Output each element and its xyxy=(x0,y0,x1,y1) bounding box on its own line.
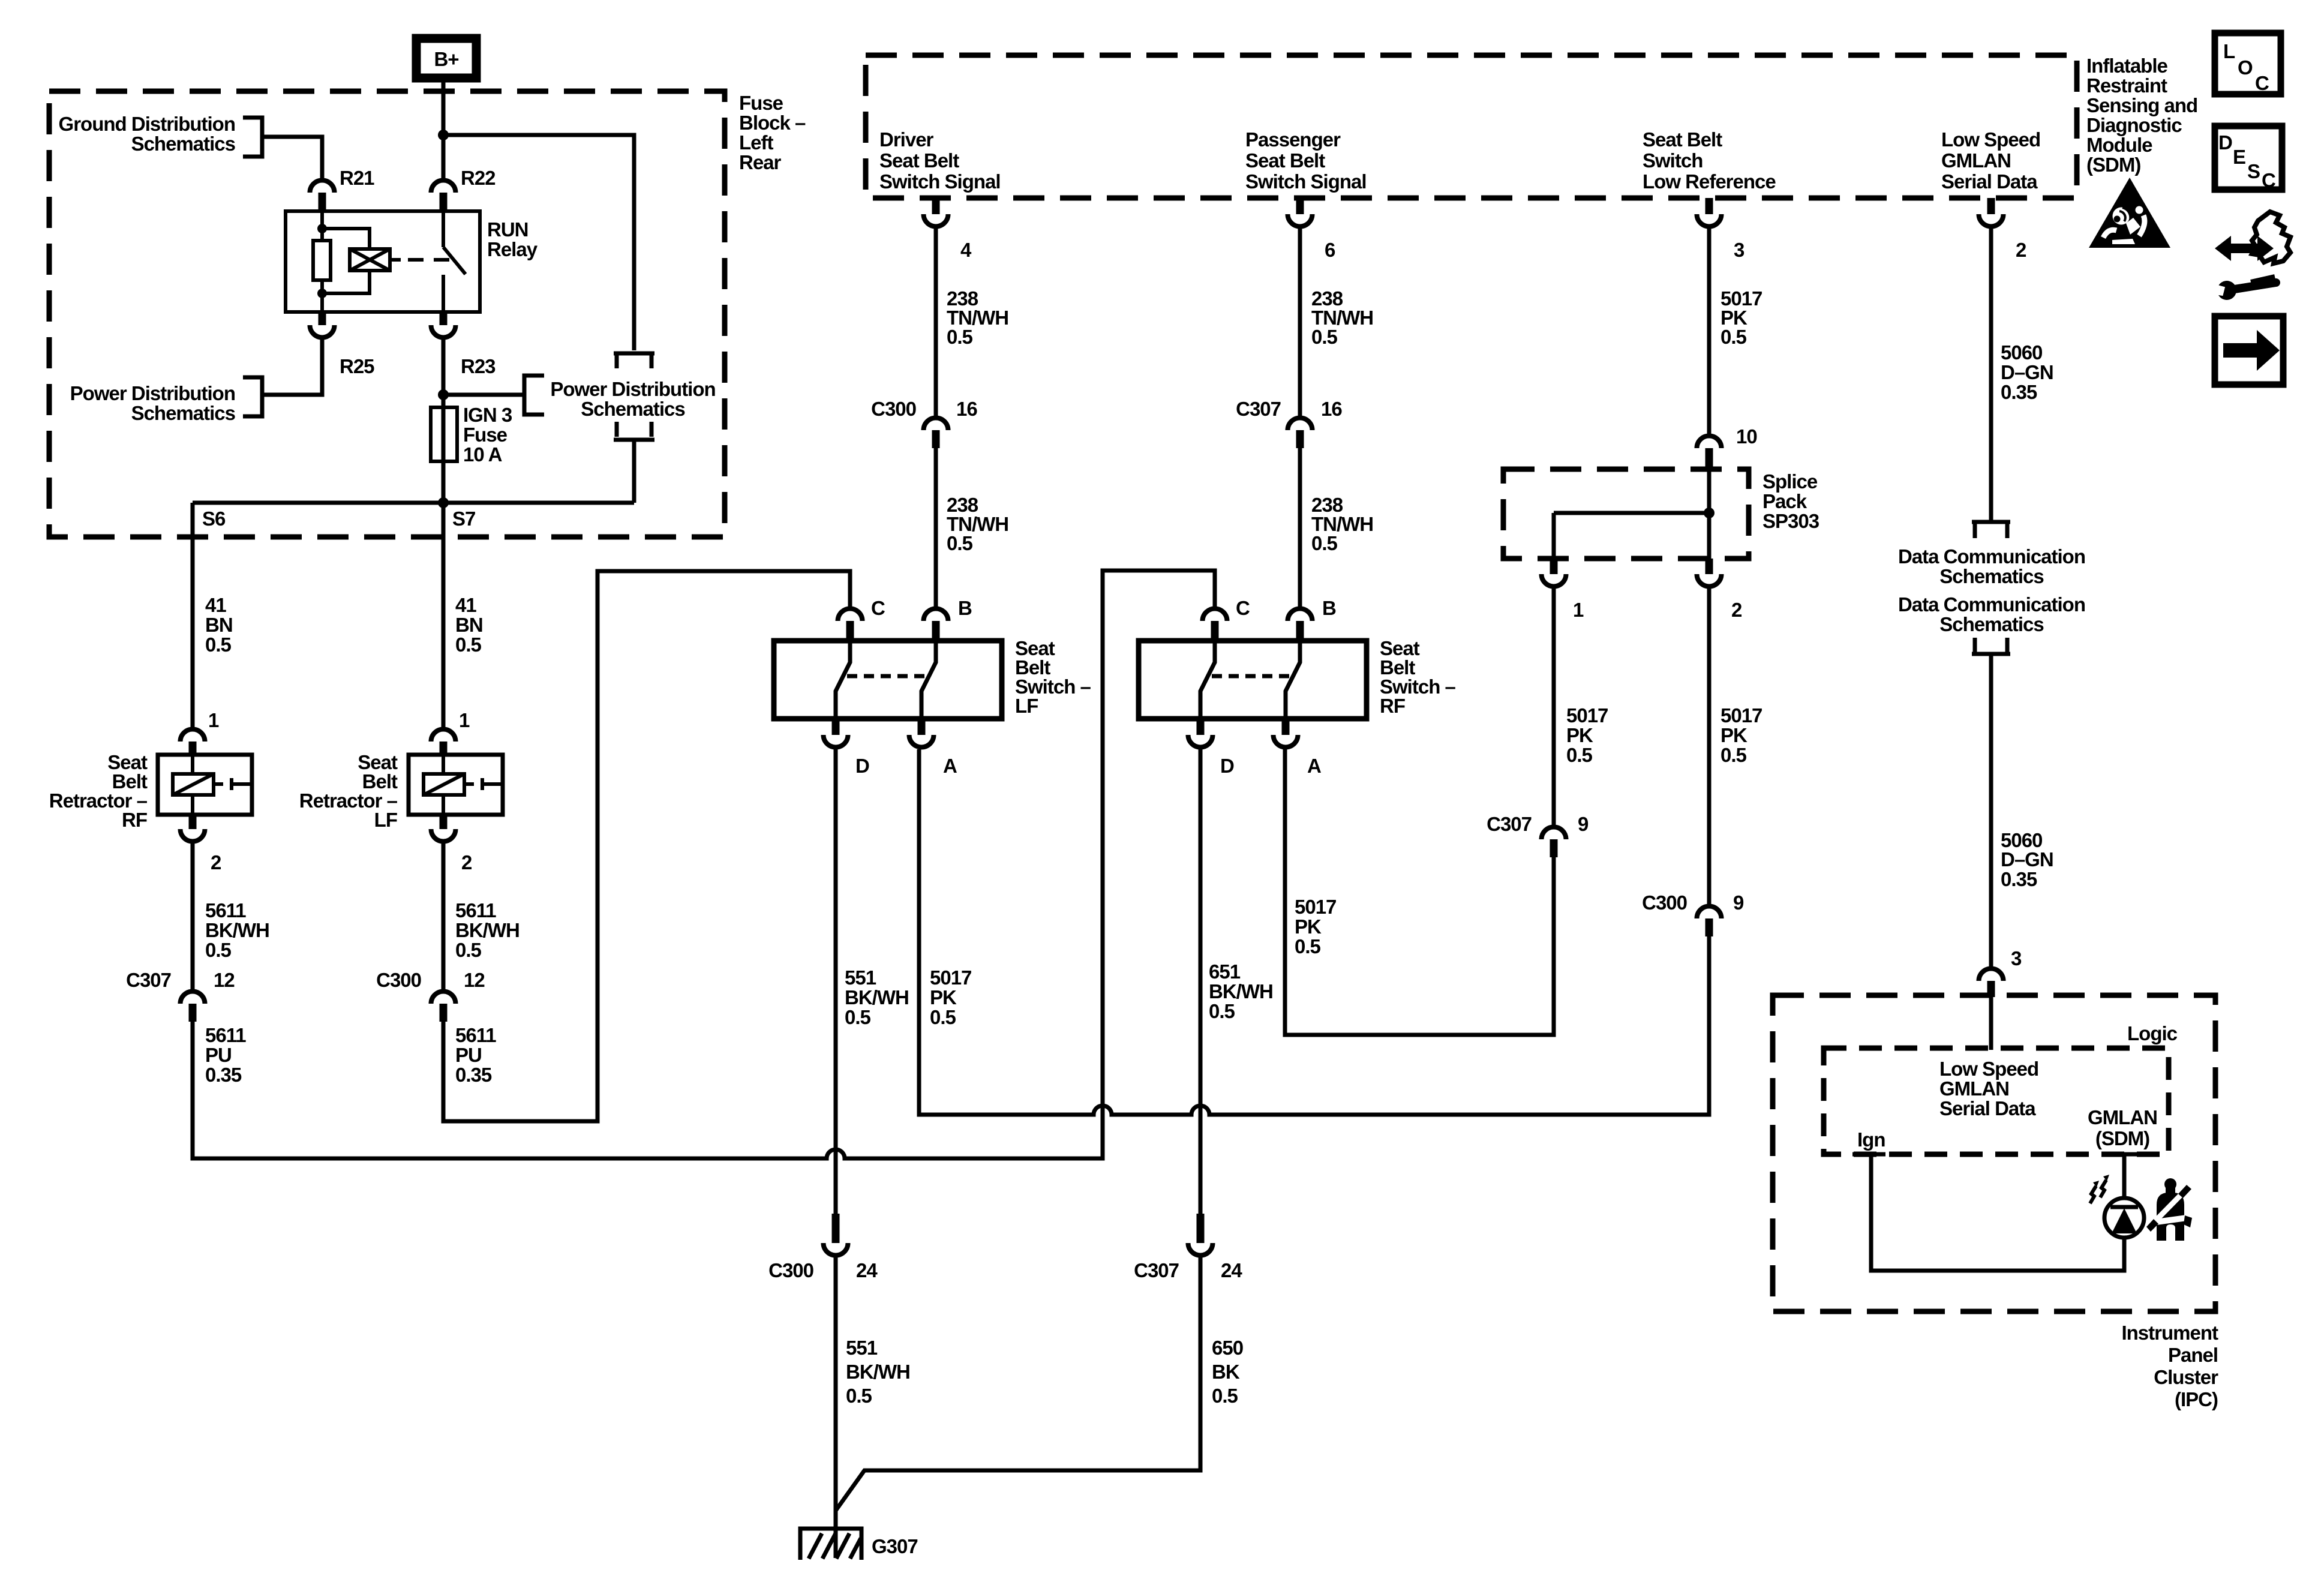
connector splice pack pin 10 xyxy=(1697,436,1722,448)
wire splice 2 down xyxy=(1707,589,1712,904)
svg-text:0.5: 0.5 xyxy=(455,634,482,656)
LED light arrows xyxy=(2090,1186,2096,1203)
svg-text:0.5: 0.5 xyxy=(1566,744,1593,766)
svg-text:Ign: Ign xyxy=(1857,1128,1885,1151)
battery feed B+ xyxy=(416,38,476,78)
svg-text:5017: 5017 xyxy=(1566,704,1608,727)
svg-text:PK: PK xyxy=(1566,724,1593,746)
svg-text:5060: 5060 xyxy=(2001,341,2042,364)
wire branch to right loop xyxy=(443,135,634,350)
svg-text:RF: RF xyxy=(1380,695,1405,717)
svg-text:C307: C307 xyxy=(1134,1259,1179,1281)
svg-text:Data Communication: Data Communication xyxy=(1898,593,2085,616)
svg-text:5017: 5017 xyxy=(1295,896,1336,918)
LOC icon box xyxy=(2215,33,2281,94)
svg-text:S6: S6 xyxy=(202,508,226,530)
svg-text:BN: BN xyxy=(455,614,483,636)
svg-text:41: 41 xyxy=(205,594,226,616)
diagnostic arrows-wrench icon xyxy=(2210,212,2290,302)
svg-text:C: C xyxy=(871,597,885,619)
svg-text:0.5: 0.5 xyxy=(846,1385,872,1407)
svg-text:Logic: Logic xyxy=(2127,1022,2178,1044)
seat belt switch RF box xyxy=(1139,641,1367,719)
svg-text:PU: PU xyxy=(455,1044,482,1066)
svg-text:0.5: 0.5 xyxy=(205,634,232,656)
connector C300 pin 16 xyxy=(924,418,948,430)
wire SDM pin 3 down xyxy=(1707,229,1712,434)
SDM pin 4 connector xyxy=(932,198,940,214)
SDM pin 2 connector xyxy=(1987,198,1995,214)
svg-text:L: L xyxy=(2223,40,2235,62)
svg-text:650: 650 xyxy=(1212,1337,1243,1359)
svg-text:2: 2 xyxy=(2016,239,2026,261)
connector C307 pin 12 xyxy=(181,992,205,1004)
retractor RF pin 2 connector xyxy=(189,815,197,829)
svg-text:6: 6 xyxy=(1325,239,1335,261)
wire LF retractor to riser to LF switch C xyxy=(443,571,850,1121)
off-page reference Power Distribution Schematics (right of IGN3) xyxy=(524,376,544,415)
wire 551 down to ground xyxy=(834,1257,838,1558)
wire right loop down to bus xyxy=(632,440,636,503)
svg-text:Diagnostic: Diagnostic xyxy=(2086,114,2182,136)
switch LF dashed link xyxy=(847,674,929,679)
seat belt retractor LF box xyxy=(409,755,503,815)
svg-text:C300: C300 xyxy=(376,969,421,991)
svg-text:Switch Signal: Switch Signal xyxy=(879,170,1001,193)
svg-text:Serial Data: Serial Data xyxy=(1941,170,2038,193)
switch RF dashed link xyxy=(1212,674,1293,679)
node splice junction xyxy=(1704,508,1715,518)
relay switch contact xyxy=(442,211,445,247)
svg-text:A: A xyxy=(943,755,957,777)
retractor RF solenoid xyxy=(173,774,214,795)
svg-text:SP303: SP303 xyxy=(1762,510,1819,532)
svg-text:16: 16 xyxy=(1321,398,1342,420)
splice pin 1 connector xyxy=(1550,559,1558,574)
svg-text:0.5: 0.5 xyxy=(930,1006,956,1028)
wire R25 to power dist bracket xyxy=(262,340,322,395)
svg-text:C: C xyxy=(2255,72,2269,94)
svg-text:B: B xyxy=(958,597,972,619)
svg-text:BK/WH: BK/WH xyxy=(846,1361,910,1383)
svg-text:0.35: 0.35 xyxy=(455,1064,492,1086)
seat belt switch RF connectors C and B xyxy=(1203,609,1227,621)
svg-text:D–GN: D–GN xyxy=(2001,848,2053,870)
switch RF blade B-A xyxy=(1286,641,1300,719)
wire LF switch D down (551) xyxy=(834,749,838,1214)
wire RF retractor to riser (hop over LF wire) xyxy=(193,571,1215,1158)
fuse IGN 3 10A xyxy=(431,407,457,461)
svg-text:A: A xyxy=(1307,755,1321,777)
wire C307-9 down to RF switch A xyxy=(1285,749,1554,1035)
connector R22 xyxy=(431,181,456,193)
relay coil (box with X) xyxy=(350,249,390,271)
svg-text:Schematics: Schematics xyxy=(1939,565,2043,587)
LED indicator (seat belt lamp) xyxy=(2104,1198,2144,1238)
seat belt retractor RF box xyxy=(158,755,252,815)
svg-text:C307: C307 xyxy=(126,969,171,991)
svg-text:0.5: 0.5 xyxy=(1311,532,1338,554)
ground G307 xyxy=(800,1529,861,1560)
svg-text:C300: C300 xyxy=(871,398,916,420)
svg-text:0.5: 0.5 xyxy=(455,939,482,961)
node B+ branch junction xyxy=(438,130,449,140)
wire SDM pin 6 down xyxy=(1298,229,1302,416)
svg-text:0.35: 0.35 xyxy=(2001,868,2037,890)
svg-text:Seat Belt: Seat Belt xyxy=(879,149,959,172)
retractor LF pin 1 connector xyxy=(431,730,456,742)
wire R23 to IGN3 fuse xyxy=(442,340,446,503)
svg-text:0.5: 0.5 xyxy=(1295,935,1321,957)
wire SDM pin 4 down xyxy=(934,229,938,416)
svg-text:Schematics: Schematics xyxy=(1939,613,2043,635)
svg-text:Module: Module xyxy=(2086,134,2152,156)
off-page reference Data Communication Schematics (double) xyxy=(1972,520,2010,524)
svg-text:5611: 5611 xyxy=(205,1024,246,1046)
wire IPC pin 3 into logic box xyxy=(1989,997,1993,1050)
connector C307 pin 9 xyxy=(1542,827,1566,839)
svg-text:0.5: 0.5 xyxy=(1721,744,1747,766)
splice pin 2 connector xyxy=(1706,559,1713,574)
svg-text:651: 651 xyxy=(1209,960,1241,983)
DESC icon box xyxy=(2215,126,2282,190)
resistor (relay) xyxy=(313,241,331,280)
connector R25 xyxy=(319,312,326,325)
svg-text:0.5: 0.5 xyxy=(1311,326,1338,348)
svg-text:Low Speed: Low Speed xyxy=(1941,128,2040,151)
seat belt switch LF connectors C and B xyxy=(838,609,863,621)
relay coil leg wire xyxy=(320,211,324,241)
svg-text:Pack: Pack xyxy=(1762,490,1807,512)
svg-text:0.35: 0.35 xyxy=(2001,381,2037,403)
wire Ign to LED xyxy=(1871,1154,2124,1271)
connector C307 pin 24 xyxy=(1197,1214,1205,1243)
svg-text:0.5: 0.5 xyxy=(947,326,973,348)
svg-text:R25: R25 xyxy=(340,355,374,377)
svg-text:1: 1 xyxy=(459,709,470,731)
seat belt wearer icon xyxy=(2146,1178,2192,1241)
svg-text:LF: LF xyxy=(1015,695,1038,717)
svg-text:D: D xyxy=(2218,131,2232,154)
svg-text:0.5: 0.5 xyxy=(947,532,973,554)
svg-text:Power Distribution: Power Distribution xyxy=(70,382,235,404)
connector C300 pin 9 xyxy=(1697,906,1722,918)
switch RF connectors D and A xyxy=(1197,719,1205,735)
svg-text:551: 551 xyxy=(846,1337,878,1359)
svg-text:GMLAN: GMLAN xyxy=(2088,1106,2157,1128)
svg-text:Fuse: Fuse xyxy=(739,92,783,114)
svg-text:2: 2 xyxy=(461,851,472,873)
svg-text:0.5: 0.5 xyxy=(845,1006,871,1028)
svg-text:Fuse: Fuse xyxy=(463,424,508,446)
SDM dashed box xyxy=(866,55,2077,198)
wire retractor RF down xyxy=(191,843,195,989)
svg-text:C: C xyxy=(2262,169,2275,191)
svg-text:IGN 3: IGN 3 xyxy=(463,404,512,426)
wire B+ to R22 xyxy=(442,82,446,178)
svg-text:0.35: 0.35 xyxy=(205,1064,242,1086)
svg-text:R23: R23 xyxy=(461,355,496,377)
forward reference arrow icon box xyxy=(2215,316,2283,385)
svg-text:Schematics: Schematics xyxy=(131,402,235,424)
svg-text:Switch Signal: Switch Signal xyxy=(1245,170,1367,193)
wire resistor bypass to coil xyxy=(322,229,370,249)
svg-text:5017: 5017 xyxy=(1721,704,1762,727)
node coil bottom xyxy=(317,289,327,298)
svg-text:(IPC): (IPC) xyxy=(2175,1388,2218,1410)
connector R23 xyxy=(440,312,448,325)
svg-text:Relay: Relay xyxy=(487,238,538,260)
svg-text:BK/WH: BK/WH xyxy=(455,919,520,941)
svg-text:S7: S7 xyxy=(452,508,475,530)
coil actuator lead xyxy=(390,258,401,262)
svg-text:R22: R22 xyxy=(461,167,496,189)
svg-text:24: 24 xyxy=(1221,1259,1242,1281)
svg-text:Power Distribution: Power Distribution xyxy=(550,378,715,400)
svg-text:0.5: 0.5 xyxy=(1209,1000,1235,1022)
wire C307-16 to RF switch B xyxy=(1298,448,1302,607)
svg-text:C: C xyxy=(1236,597,1250,619)
svg-text:LF: LF xyxy=(374,809,397,831)
svg-text:3: 3 xyxy=(1734,239,1744,261)
RUN relay box xyxy=(286,211,480,312)
svg-text:Left: Left xyxy=(739,131,774,154)
svg-text:PK: PK xyxy=(1295,915,1322,938)
svg-text:D: D xyxy=(855,755,869,777)
relay actuator dashed link xyxy=(408,258,454,262)
svg-text:BK/WH: BK/WH xyxy=(845,986,909,1008)
svg-text:GMLAN: GMLAN xyxy=(1941,149,2011,172)
svg-text:3: 3 xyxy=(2011,947,2022,969)
svg-text:S: S xyxy=(2247,160,2260,182)
wire junction to right bracket xyxy=(443,393,524,397)
svg-text:Low Reference: Low Reference xyxy=(1643,170,1776,193)
svg-text:Ground Distribution: Ground Distribution xyxy=(59,113,235,135)
retractor LF pin 2 connector xyxy=(440,815,448,829)
switch RF blade C-D xyxy=(1200,641,1215,719)
splice pack internal wires xyxy=(1707,469,1712,559)
svg-text:4: 4 xyxy=(960,239,972,261)
svg-text:C307: C307 xyxy=(1487,813,1532,835)
wire LF switch A to 1858 bus xyxy=(917,749,921,1115)
wire S6 down xyxy=(191,503,195,727)
wire data comm down to IPC pin 3 xyxy=(1989,654,1993,966)
svg-text:BN: BN xyxy=(205,614,233,636)
instrument panel cluster dashed box xyxy=(1773,995,2215,1311)
svg-text:5611: 5611 xyxy=(455,1024,496,1046)
svg-text:12: 12 xyxy=(464,969,485,991)
wire splice 1 down xyxy=(1552,589,1556,825)
svg-text:(SDM): (SDM) xyxy=(2095,1127,2149,1149)
bus S6/S7 horizontal xyxy=(193,501,634,505)
wire retractor LF down xyxy=(442,843,446,989)
node S7 xyxy=(438,497,449,508)
svg-text:G307: G307 xyxy=(872,1535,918,1557)
SDM pin 6 connector xyxy=(1296,198,1304,214)
svg-text:Low Speed: Low Speed xyxy=(1939,1058,2038,1080)
wire S7 down xyxy=(442,503,446,727)
svg-text:BK/WH: BK/WH xyxy=(1209,980,1273,1002)
svg-text:Splice: Splice xyxy=(1762,470,1818,493)
svg-text:Serial Data: Serial Data xyxy=(1939,1097,2036,1119)
svg-text:9: 9 xyxy=(1733,891,1744,914)
wire C300-9 down to LF switch A (hops over risers) xyxy=(919,749,1709,1115)
svg-text:Instrument: Instrument xyxy=(2121,1322,2218,1344)
svg-text:2: 2 xyxy=(1731,599,1742,621)
connector C300 pin 12 xyxy=(431,992,456,1004)
svg-text:Cluster: Cluster xyxy=(2154,1366,2218,1388)
svg-text:16: 16 xyxy=(956,398,977,420)
svg-text:Rear: Rear xyxy=(739,151,782,173)
svg-text:GMLAN: GMLAN xyxy=(1939,1077,2009,1100)
svg-text:(SDM): (SDM) xyxy=(2086,154,2140,176)
switch LF connectors D and A xyxy=(832,719,840,735)
svg-text:10: 10 xyxy=(1736,425,1757,448)
svg-text:Driver: Driver xyxy=(879,128,934,151)
svg-text:41: 41 xyxy=(455,594,476,616)
svg-text:551: 551 xyxy=(845,966,876,989)
svg-text:C307: C307 xyxy=(1236,398,1281,420)
seat belt switch LF box xyxy=(774,641,1002,719)
svg-text:5611: 5611 xyxy=(455,899,496,921)
wire GMLAN pin to LED xyxy=(2122,1154,2127,1198)
svg-text:1: 1 xyxy=(1573,599,1584,621)
svg-text:O: O xyxy=(2238,56,2253,79)
switch LF blade C-D xyxy=(836,641,850,719)
node coil top xyxy=(317,224,327,233)
svg-text:RF: RF xyxy=(122,809,147,831)
svg-text:Schematics: Schematics xyxy=(581,398,684,420)
svg-text:PK: PK xyxy=(930,986,957,1008)
svg-text:Sensing and: Sensing and xyxy=(2086,94,2197,116)
svg-text:12: 12 xyxy=(214,969,235,991)
svg-text:BK/WH: BK/WH xyxy=(205,919,269,941)
connector R21 xyxy=(310,181,335,193)
svg-text:D–GN: D–GN xyxy=(2001,361,2053,383)
wire bracket to R21 xyxy=(262,137,322,178)
node IGN3 junction xyxy=(438,389,449,400)
svg-text:PU: PU xyxy=(205,1044,232,1066)
svg-text:Schematics: Schematics xyxy=(131,133,235,155)
splice pack SP303 dashed box xyxy=(1503,469,1749,559)
connector IPC pin 3 xyxy=(1979,969,2004,981)
svg-text:5017: 5017 xyxy=(930,966,971,989)
IPC logic inner dashed box xyxy=(1824,1048,2169,1154)
svg-text:Seat Belt: Seat Belt xyxy=(1643,128,1722,151)
svg-text:BK: BK xyxy=(1212,1361,1240,1383)
svg-text:0.5: 0.5 xyxy=(205,939,232,961)
svg-text:B: B xyxy=(1322,597,1336,619)
svg-text:5611: 5611 xyxy=(205,899,246,921)
svg-text:Restraint: Restraint xyxy=(2086,74,2167,97)
svg-text:Passenger: Passenger xyxy=(1245,128,1341,151)
svg-text:B+: B+ xyxy=(434,48,458,70)
SDM pin 3 connector xyxy=(1706,198,1713,214)
switch LF blade B-A xyxy=(921,641,936,719)
svg-text:9: 9 xyxy=(1578,813,1589,835)
off-page reference Power Distribution Schematics (inline right loop) xyxy=(614,352,654,356)
svg-text:RUN: RUN xyxy=(487,218,529,241)
connector C300 pin 24 xyxy=(832,1214,840,1243)
svg-text:Switch: Switch xyxy=(1643,149,1703,172)
fuse block - left rear dashed box xyxy=(49,91,725,537)
svg-text:Block –: Block – xyxy=(739,112,806,134)
wire RF switch D down (651) xyxy=(1199,749,1203,1214)
svg-text:E: E xyxy=(2233,146,2245,168)
svg-text:Data Communication: Data Communication xyxy=(1898,545,2085,568)
SDM airbag warning triangle xyxy=(2089,178,2170,248)
svg-text:10 A: 10 A xyxy=(463,443,502,466)
retractor LF solenoid xyxy=(424,774,464,795)
svg-text:Inflatable: Inflatable xyxy=(2086,55,2168,77)
svg-text:Panel: Panel xyxy=(2168,1344,2218,1366)
svg-text:D: D xyxy=(1220,755,1234,777)
svg-text:0.5: 0.5 xyxy=(1212,1385,1238,1407)
svg-text:C300: C300 xyxy=(1642,891,1687,914)
svg-text:C300: C300 xyxy=(768,1259,813,1281)
svg-text:1: 1 xyxy=(208,709,219,731)
connector C307 pin 16 xyxy=(1288,418,1313,430)
svg-text:2: 2 xyxy=(211,851,221,873)
wire C300-16 to LF switch B xyxy=(934,448,938,607)
wire SDM pin 2 down xyxy=(1989,229,1993,523)
svg-text:0.5: 0.5 xyxy=(1721,326,1747,348)
retractor RF pin 1 connector xyxy=(181,730,205,742)
svg-text:Seat Belt: Seat Belt xyxy=(1245,149,1325,172)
svg-text:PK: PK xyxy=(1721,724,1747,746)
svg-text:24: 24 xyxy=(856,1259,878,1281)
wire 650 down and over to ground xyxy=(836,1257,1200,1511)
svg-text:R21: R21 xyxy=(340,167,374,189)
